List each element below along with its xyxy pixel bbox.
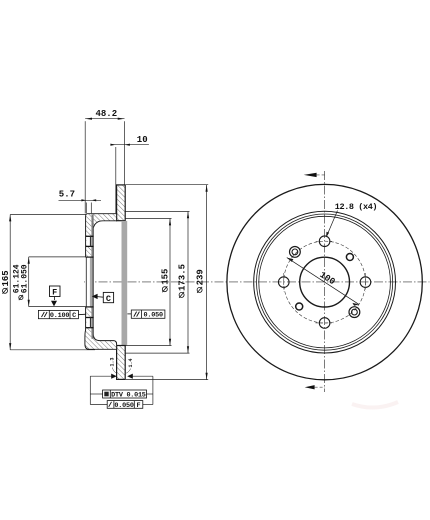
svg-text:173.5: 173.5 [177, 264, 187, 291]
svg-text:C: C [106, 294, 111, 304]
svg-text:5.7: 5.7 [59, 190, 75, 200]
svg-text:F: F [52, 288, 57, 298]
svg-text:0.100: 0.100 [50, 312, 70, 320]
svg-text:239: 239 [195, 269, 205, 285]
svg-text:10: 10 [137, 135, 148, 145]
svg-text:61.050: 61.050 [20, 264, 29, 293]
svg-text:DTV 0.015: DTV 0.015 [111, 392, 146, 400]
svg-text:165: 165 [1, 270, 11, 286]
svg-text:48.2: 48.2 [96, 109, 118, 119]
svg-text:0.050: 0.050 [143, 312, 163, 320]
svg-text:C: C [72, 312, 76, 320]
svg-text:155: 155 [161, 269, 171, 285]
svg-text:0.050: 0.050 [114, 402, 134, 410]
svg-text:100: 100 [318, 270, 337, 287]
svg-text:1.4: 1.4 [128, 358, 134, 367]
svg-text:1.3: 1.3 [109, 357, 115, 366]
svg-text:F: F [137, 402, 141, 410]
svg-text:12.8 (x4): 12.8 (x4) [335, 202, 377, 212]
